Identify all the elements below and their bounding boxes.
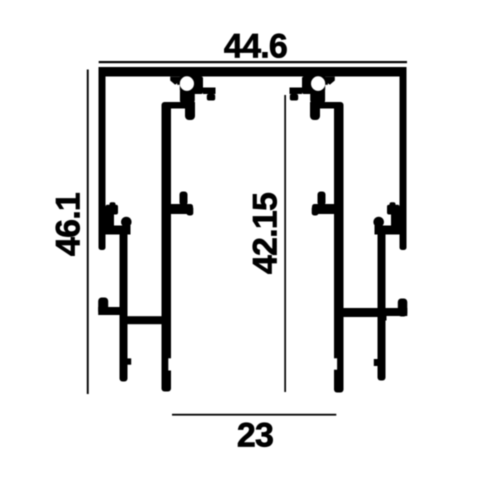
left screw boss hole (white) <box>180 76 194 91</box>
dimension line left (46.1) <box>87 70 89 395</box>
svg-text:44.6: 44.6 <box>224 27 287 65</box>
left screw boss right extension <box>192 77 203 95</box>
left inner wall mid stub bar <box>168 204 193 214</box>
left screw boss left tooth <box>170 77 180 85</box>
top flange bar <box>99 67 407 77</box>
right bottom J-hook horizontal <box>386 308 408 316</box>
svg-text:42.15: 42.15 <box>246 193 284 274</box>
left inner wall top horizontal <box>162 102 196 109</box>
svg-text:23: 23 <box>237 416 273 454</box>
right outer wall stub-hook connector <box>391 210 400 228</box>
right inner wall mid stub bar <box>312 204 337 214</box>
left inner wall mid stub tip <box>187 206 194 216</box>
right inner wall mid stub tip <box>312 206 319 216</box>
dimension line top (44.6) <box>99 61 407 63</box>
left inner wall mid stub tooth <box>180 192 188 206</box>
left boss arm <box>203 88 216 95</box>
left H crossbar <box>127 316 162 324</box>
left outer wall stub bump <box>110 202 116 207</box>
right screw boss ring <box>308 73 328 93</box>
right screw boss bottom <box>310 89 325 104</box>
right boss arm <box>290 88 303 95</box>
right bottom J-hook vertical <box>398 299 408 317</box>
right screw boss hole (white) <box>311 76 325 91</box>
right screw boss left extension <box>302 77 313 95</box>
dimension line bottom (23) <box>172 414 336 416</box>
right descending wall <box>378 229 386 381</box>
left screw boss ring <box>177 73 197 93</box>
right inner wall top horizontal <box>310 102 344 109</box>
right outer wall <box>400 67 407 250</box>
left descending wall <box>120 229 128 382</box>
left bottom J-hook vertical <box>98 298 108 315</box>
right inner wall mid stub tooth <box>318 192 326 206</box>
right screw boss notch (white) <box>325 85 339 101</box>
right H crossbar junction blob <box>378 315 387 321</box>
left screw boss bottom <box>180 89 195 104</box>
left outer wall hook tip <box>121 217 132 228</box>
left bottom J-hook horizontal <box>98 307 120 315</box>
left inner wall notch (white) <box>168 358 171 370</box>
left screw boss notch (white) <box>166 85 180 101</box>
left outer wall stub-hook connector <box>106 210 115 228</box>
right outer wall lower hook arm <box>375 226 400 235</box>
left outer wall mid stub <box>106 205 119 215</box>
right outer wall stub bump <box>390 202 396 207</box>
left boss arm tooth <box>207 94 215 101</box>
right descending wall tooth <box>374 359 378 366</box>
left outer wall lower hook arm <box>106 226 131 235</box>
left inner wall <box>162 102 172 392</box>
dimension line middle (42.15) <box>284 95 286 392</box>
left inner wall top stub down <box>185 102 195 120</box>
right outer wall mid stub <box>387 205 400 215</box>
right inner wall top stub down <box>310 102 320 120</box>
right screw boss right tooth <box>325 77 335 85</box>
right inner wall <box>334 102 344 393</box>
left outer wall <box>99 67 106 250</box>
right inner wall notch (white) <box>333 358 337 369</box>
right H crossbar <box>344 308 379 317</box>
right boss arm tooth <box>290 94 298 101</box>
right outer wall hook tip <box>373 217 384 228</box>
left descending wall tooth <box>128 358 132 364</box>
svg-text:46.1: 46.1 <box>49 193 87 256</box>
